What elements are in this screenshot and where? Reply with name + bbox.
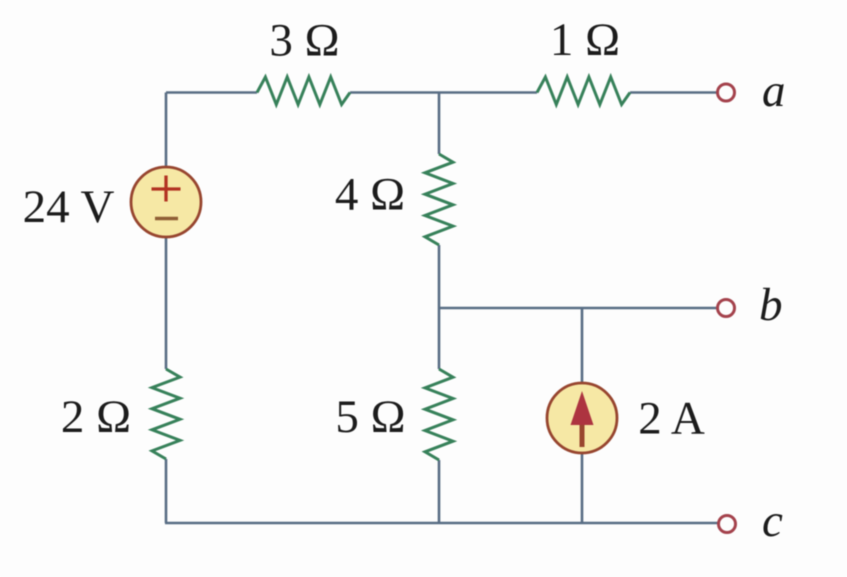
- svg-text:2 Ω: 2 Ω: [61, 391, 131, 443]
- svg-text:24 V: 24 V: [23, 181, 115, 233]
- svg-text:a: a: [762, 65, 786, 117]
- svg-text:5 Ω: 5 Ω: [335, 391, 405, 443]
- svg-text:1 Ω: 1 Ω: [550, 14, 620, 66]
- svg-text:b: b: [759, 279, 783, 331]
- svg-text:2 A: 2 A: [638, 393, 705, 445]
- svg-text:4 Ω: 4 Ω: [335, 169, 405, 221]
- svg-text:c: c: [762, 495, 783, 547]
- svg-text:3 Ω: 3 Ω: [269, 15, 339, 67]
